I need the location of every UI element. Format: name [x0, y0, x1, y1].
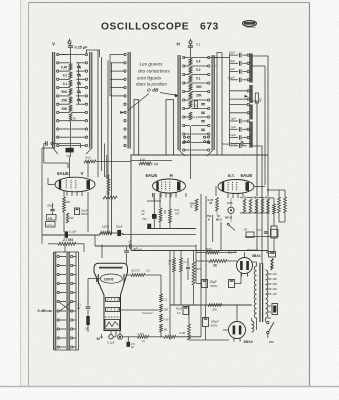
contacts S1b: [85, 53, 87, 146]
box SM900: [46, 222, 56, 228]
resistor 25K: [208, 304, 222, 312]
wire: [267, 253, 270, 255]
wire: [98, 144, 107, 180]
contacts S4a: [57, 255, 59, 348]
transformer taps lower: [268, 306, 272, 318]
resistor bleeder 2: [279, 190, 286, 222]
wire: [48, 178, 55, 185]
wire S2 bottom: [179, 136, 213, 156]
label 6AU6 H: [146, 173, 173, 178]
transformer primary: [254, 266, 256, 318]
resistor chain CRT grid: [160, 275, 169, 338]
box 140: [47, 215, 57, 221]
contacts S2a: [183, 56, 185, 151]
resistor 800: [63, 197, 71, 212]
resistor small right: [271, 259, 273, 270]
CRT dashed electrode: [105, 316, 120, 318]
CRT envelope: [94, 263, 128, 330]
capacitors bank lower: [230, 119, 250, 140]
switch wafer S3a: [250, 54, 252, 83]
label 0.1uF term: [108, 341, 115, 345]
wire pins V3: [228, 193, 243, 198]
wires S4 inner leads: [59, 257, 66, 348]
fuse box: [272, 304, 278, 315]
switch wafer S2b: [212, 55, 214, 150]
capacitor 50uF bus: [112, 225, 124, 236]
capacitor 16uF a: [202, 280, 208, 288]
wire: [252, 146, 262, 264]
label 0dB: [38, 309, 53, 313]
wire feed: [215, 54, 230, 146]
wire: [196, 274, 241, 284]
resistor 1M crt: [85, 316, 90, 332]
labels divider V: [61, 65, 68, 110]
rectifier V4 6BX4: [237, 258, 253, 277]
resistor 0.22M: [169, 208, 181, 223]
wire: [195, 245, 197, 284]
resistor 90K: [192, 262, 202, 285]
capacitor 2.5uF term: [127, 337, 136, 349]
label 6AU6 V: [57, 171, 84, 176]
tube V3 6AU6: [218, 180, 254, 194]
wire: [173, 251, 175, 259]
terminal double: [118, 334, 123, 339]
wire CRT pins: [111, 331, 120, 337]
label 629: [228, 249, 237, 255]
CRT type D67/6: [100, 274, 122, 283]
resistor diag: [244, 229, 269, 238]
wire: [48, 244, 84, 252]
note arrow right: [160, 93, 179, 98]
wire: [252, 66, 265, 185]
label 6BX4 bottom: [244, 340, 254, 344]
wire S4 bottom: [54, 349, 79, 351]
transformer taps: [268, 272, 278, 296]
wire: [215, 186, 217, 196]
wire S4 top: [54, 245, 79, 253]
label EF94: [146, 162, 158, 167]
CRT plate pair 2: [106, 308, 120, 312]
capacitor small: [186, 258, 190, 280]
wire: [101, 245, 103, 259]
wire: [169, 251, 171, 341]
wire: [268, 240, 274, 254]
transformer core: [260, 263, 263, 322]
wire: [70, 121, 72, 149]
wire: [64, 191, 88, 232]
tube V1 6AU6: [55, 177, 95, 192]
capacitor 0.1uF crt: [77, 303, 90, 317]
wire: [215, 65, 218, 67]
capacitor 25uF: [47, 203, 55, 215]
wire: [265, 318, 267, 322]
contacts bank lower plain: [230, 103, 250, 114]
wire pair B: [166, 100, 174, 155]
wire top bracket: [86, 50, 99, 57]
switch wafer S1c: [128, 52, 130, 149]
contacts S4b: [71, 255, 73, 348]
wire CRT left lead: [88, 279, 100, 303]
capacitor 0.25uF: [68, 44, 88, 50]
wire: [240, 213, 270, 237]
wire: [41, 148, 43, 244]
wire: [217, 198, 231, 223]
resistor 0.45M: [208, 198, 219, 212]
wire: [190, 126, 192, 160]
rectifier V5 6BX4: [229, 322, 246, 342]
switch mains: [267, 321, 274, 338]
resistor Rx: [261, 199, 264, 213]
wire bank right out: [252, 56, 268, 254]
resistor HT dropper: [268, 198, 275, 226]
wire: [252, 262, 257, 330]
resistor 60K: [169, 258, 176, 272]
wire: [174, 251, 181, 306]
resistor 50K out: [206, 247, 219, 254]
wires S1c bracket: [110, 55, 124, 96]
switch wafer S3b: [250, 85, 252, 103]
wire: [223, 305, 237, 330]
resistor 4.5: [189, 101, 198, 120]
switch wafer S4b: [67, 252, 69, 350]
wire: [147, 193, 161, 201]
wire: [200, 194, 202, 337]
resistor 50K bottom: [164, 335, 176, 338]
trimmer capacitors H: [201, 104, 205, 131]
switch wafer S1b: [90, 52, 92, 149]
wire: [96, 161, 131, 163]
resistor 0.2: [103, 192, 117, 199]
label 15M: [216, 214, 222, 221]
resistor 750K: [207, 214, 212, 221]
resistor 0.38: [180, 324, 191, 340]
capacitor + input: [266, 251, 276, 269]
wire: [244, 253, 247, 258]
wire: [193, 251, 195, 306]
wire: [252, 101, 257, 250]
resistor 150K bus: [100, 225, 112, 235]
trimmer capacitors V: [77, 63, 81, 104]
contacts S1a: [57, 53, 59, 146]
wire Concent: [121, 310, 160, 315]
resistor 150K sw: [190, 199, 198, 211]
label 16uF 500V: [210, 280, 218, 288]
wire arrow contact: [120, 111, 124, 114]
capacitor 50m: [230, 144, 247, 149]
title OSCILLOSCOPE 673: [101, 22, 219, 33]
CRT screen: [99, 267, 123, 269]
resistor 800 H: [159, 208, 166, 222]
capacitor 50uF lower: [176, 307, 189, 316]
resistor 750: [66, 213, 74, 223]
capacitor 16uF b: [229, 280, 235, 288]
wire S2 top jumper: [209, 53, 222, 156]
wire: [196, 253, 237, 262]
page left edge: [20, 0, 22, 386]
wire bus lower: [170, 304, 252, 306]
wire: [213, 215, 235, 250]
resistor 75K: [105, 174, 110, 196]
terminal 3: [0, 0, 1, 1]
capacitor 25uF H: [142, 193, 157, 229]
wire: [42, 147, 54, 149]
wire S4 verticals: [76, 252, 79, 350]
tube V2 6AU6: [153, 179, 186, 193]
wire pins V2: [161, 192, 176, 197]
wire S1 bottom taper: [53, 149, 91, 158]
wire bus1: [42, 234, 196, 237]
label mains: [269, 339, 275, 346]
capacitor 0.1uF bus: [65, 230, 77, 238]
lamp neon: [225, 201, 234, 219]
resistor 62Kn: [126, 269, 162, 277]
heater winding: [252, 318, 254, 332]
CRT plate pair 1: [106, 298, 120, 302]
capacitors bank upper: [230, 53, 250, 82]
wire S1 verticals: [98, 50, 102, 150]
wires bank mid: [230, 90, 250, 101]
wire: [190, 47, 192, 58]
resistor Rx: [249, 199, 252, 213]
wire: [47, 178, 49, 185]
switch wafer S3c: [250, 105, 252, 120]
wire pair A: [134, 100, 139, 155]
box HT: [271, 226, 277, 249]
resistor 5M: [265, 195, 270, 213]
resistor 61K H: [139, 158, 151, 165]
resistor bleeder 1: [267, 189, 285, 222]
stamp logo: [243, 21, 257, 28]
switch wafer S1a: [52, 52, 54, 149]
resistor divider chain V: [69, 49, 72, 112]
resistor 400: [255, 93, 262, 103]
capacitor 0.1uF H: [188, 42, 201, 47]
wire: [69, 157, 71, 178]
terminal W: [97, 334, 117, 341]
resistor 0.1: [180, 258, 188, 272]
resistor 68K: [253, 195, 258, 213]
wire bus2: [95, 235, 131, 246]
capacitor 0.1uF top crt: [124, 247, 138, 264]
wire pins V1: [67, 191, 82, 196]
switch wafer S2a: [178, 55, 180, 150]
wire: [254, 186, 265, 188]
resistor 2.7Mn: [58, 238, 76, 245]
note text: [136, 62, 171, 94]
transformer secondary: [266, 270, 268, 318]
resistor 2K: [209, 260, 227, 268]
CRT cathode plates: [97, 274, 125, 284]
wire bus bottom box: [131, 250, 268, 252]
capacitor blk: [0, 0, 1, 1]
capacitor 16uF 500V: [75, 208, 88, 216]
resistor 4K: [69, 113, 76, 121]
capacitor 0.1uF bus2: [128, 241, 196, 252]
switch wafer S4a: [54, 252, 56, 350]
input terminal H: [177, 39, 193, 47]
contacts S2b: [208, 56, 210, 151]
wire: [70, 47, 72, 49]
wire: [147, 193, 196, 229]
wires S2b leads: [191, 58, 207, 151]
resistor divider chain H: [189, 58, 192, 107]
labels divider H: [196, 60, 203, 98]
wires S4 right leads: [73, 257, 76, 348]
wire pair long: [108, 61, 112, 236]
wire bottom bus: [122, 336, 201, 338]
capacitor S1 bottom: [44, 141, 81, 168]
wire: [190, 160, 192, 179]
resistor 0.25: [241, 195, 247, 213]
wire: [153, 193, 187, 197]
box right small: [271, 222, 279, 237]
wire: [189, 305, 229, 340]
wire X crossing: [59, 302, 72, 312]
resistor 0.80: [138, 332, 149, 343]
contacts S1c: [124, 53, 126, 146]
CRT graticule box: [105, 320, 120, 330]
wires S1b leads: [59, 55, 85, 146]
wires S1a leads: [59, 55, 70, 146]
potentiometer VR: [66, 148, 74, 158]
capacitor 180uF 500V: [203, 318, 219, 328]
wire: [87, 158, 89, 162]
note arrow left: [128, 94, 149, 111]
label BT 6AU6: [228, 173, 253, 178]
resistor 61K: [84, 156, 96, 178]
label 6BX4 top: [247, 250, 261, 259]
capacitor 50uF box: [223, 141, 253, 146]
wires S2a leads: [185, 58, 190, 151]
wire: [240, 197, 270, 199]
wire: [205, 196, 207, 305]
labels bank upper: [228, 51, 236, 80]
input terminal V: [52, 39, 71, 47]
wire box H amp: [131, 155, 268, 250]
labels bank lower: [229, 117, 239, 146]
switch wafer S3d: [250, 122, 252, 148]
